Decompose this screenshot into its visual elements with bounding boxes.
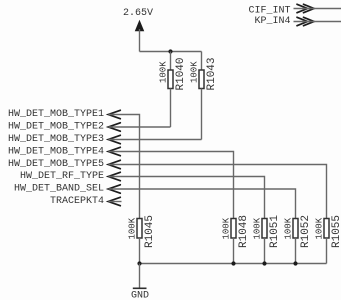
wire row1 to R1045 <box>109 115 140 219</box>
svg-text:2.65V: 2.65V <box>123 8 153 19</box>
node HW_DET_BAND_SEL label <box>14 184 104 195</box>
value 100K (R1040) <box>158 61 168 83</box>
svg-text:R1040: R1040 <box>175 57 187 90</box>
wire row7 to R1052 <box>109 189 296 219</box>
svg-text:R1043: R1043 <box>206 57 218 90</box>
wire R1045 bottom lead <box>139 238 141 264</box>
svg-text:R1048: R1048 <box>238 215 250 248</box>
wire top rail <box>140 51 202 53</box>
junction gnd at R1051 <box>262 261 266 265</box>
power 2.65V arrow symbol <box>135 21 144 32</box>
svg-text:TRACEPKT4: TRACEPKT4 <box>50 196 104 207</box>
wire KP_IN4 <box>294 21 341 23</box>
wire CIF_INT <box>294 8 341 10</box>
wire row3 <box>109 139 202 141</box>
refdes R1045 <box>144 215 156 248</box>
refdes R1055 <box>331 215 341 248</box>
node HW_DET_MOB_TYPE2 label <box>8 122 104 133</box>
wire R1043 bottom lead to row3 <box>201 89 203 140</box>
port CIF_INT label <box>248 5 290 16</box>
node HW_DET_MOB_TYPE5 label <box>8 159 104 170</box>
svg-text:KP_IN4: KP_IN4 <box>254 16 290 27</box>
resistor R1045 <box>137 219 142 239</box>
value 100K (R1051) <box>252 217 262 239</box>
node HW_DET_MOB_TYPE3 label <box>8 134 104 145</box>
svg-text:HW_DET_MOB_TYPE3: HW_DET_MOB_TYPE3 <box>8 134 104 145</box>
node HW_DET_MOB_TYPE1 label <box>8 109 104 120</box>
port KP_IN4 label <box>254 16 290 27</box>
wire gnd stem <box>139 264 141 289</box>
port HW_DET_MOB_TYPE5 arrow <box>108 160 120 168</box>
port TRACEPKT4 arrow <box>108 197 121 205</box>
refdes R1048 <box>238 215 250 248</box>
ground <box>131 288 149 300</box>
junction top rail at R1040 <box>168 49 172 53</box>
wire row2 <box>109 126 171 128</box>
refdes R1040 <box>175 57 187 90</box>
node HW_DET_MOB_TYPE4 label <box>8 146 104 157</box>
svg-text:R1051: R1051 <box>269 215 281 248</box>
resistor R1052 <box>293 219 298 239</box>
wire ground rail <box>140 263 327 265</box>
wire power stem <box>139 29 141 52</box>
resistor R1040 <box>168 70 173 89</box>
svg-text:CIF_INT: CIF_INT <box>248 5 290 16</box>
port HW_DET_RF_TYPE arrow <box>108 172 120 180</box>
port KP_IN4 chevrons <box>297 17 314 25</box>
wire R1052 bottom lead <box>295 238 297 264</box>
node TRACEPKT4 label <box>50 196 104 207</box>
junction gnd at R1052 <box>293 261 297 265</box>
junction gnd at R1045 <box>137 261 141 265</box>
power 2.65V label <box>123 8 153 19</box>
wire row5 to R1055 <box>109 165 327 219</box>
svg-text:HW_DET_MOB_TYPE5: HW_DET_MOB_TYPE5 <box>8 159 104 170</box>
wire R1040 bottom lead to row2 <box>170 89 172 128</box>
svg-text:100K: 100K <box>158 61 168 83</box>
wire R1040 top lead <box>170 52 172 71</box>
resistor R1051 <box>262 219 267 239</box>
svg-text:100K: 100K <box>189 61 199 83</box>
svg-text:R1052: R1052 <box>300 215 312 248</box>
refdes R1043 <box>206 57 218 90</box>
wire R1043 top lead <box>201 52 203 71</box>
wire R1055 bottom lead <box>326 238 328 264</box>
port HW_DET_MOB_TYPE1 arrow <box>108 110 120 118</box>
svg-text:HW_DET_MOB_TYPE1: HW_DET_MOB_TYPE1 <box>8 109 104 120</box>
value 100K (R1048) <box>221 217 231 239</box>
resistor R1055 <box>324 219 329 239</box>
value 100K (R1052) <box>283 217 293 239</box>
junction gnd at R1048 <box>231 261 235 265</box>
wire R1051 bottom lead <box>264 238 266 264</box>
svg-text:100K: 100K <box>314 217 324 239</box>
svg-text:GND: GND <box>131 291 149 300</box>
svg-text:HW_DET_MOB_TYPE4: HW_DET_MOB_TYPE4 <box>8 146 104 157</box>
svg-text:HW_DET_MOB_TYPE2: HW_DET_MOB_TYPE2 <box>8 122 104 133</box>
value 100K (R1045) <box>127 217 137 239</box>
svg-text:100K: 100K <box>221 217 231 239</box>
svg-text:HW_DET_BAND_SEL: HW_DET_BAND_SEL <box>14 184 104 195</box>
svg-text:100K: 100K <box>283 217 293 239</box>
svg-text:R1045: R1045 <box>144 215 156 248</box>
svg-text:100K: 100K <box>252 217 262 239</box>
port CIF_INT chevrons <box>297 4 314 12</box>
svg-text:R1055: R1055 <box>331 215 341 248</box>
node HW_DET_RF_TYPE label <box>20 171 104 182</box>
refdes R1052 <box>300 215 312 248</box>
wire row6 to R1051 <box>109 177 265 219</box>
port HW_DET_MOB_TYPE2 arrow <box>108 123 120 131</box>
value 100K (R1043) <box>189 61 199 83</box>
resistor R1048 <box>231 219 236 239</box>
resistor R1043 <box>199 70 204 89</box>
svg-text:HW_DET_RF_TYPE: HW_DET_RF_TYPE <box>20 171 104 182</box>
port HW_DET_MOB_TYPE3 arrow <box>108 135 120 143</box>
refdes R1051 <box>269 215 281 248</box>
port HW_DET_MOB_TYPE4 arrow <box>108 147 120 155</box>
svg-text:100K: 100K <box>127 217 137 239</box>
value 100K (R1055) <box>314 217 324 239</box>
wire R1048 bottom lead <box>233 238 235 264</box>
port HW_DET_BAND_SEL arrow <box>108 185 120 193</box>
wire row4 to R1048 <box>109 152 234 219</box>
